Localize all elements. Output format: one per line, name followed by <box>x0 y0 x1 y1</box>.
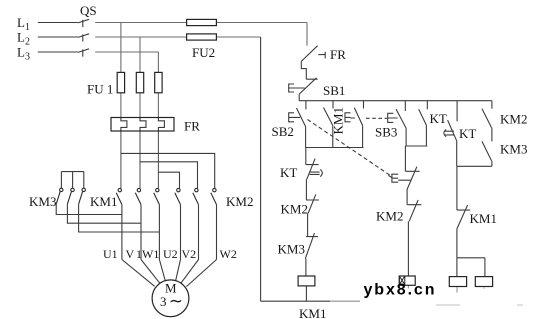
svg-text:FR: FR <box>330 47 346 62</box>
svg-text:W2: W2 <box>220 247 237 261</box>
svg-text:KM1: KM1 <box>331 107 346 134</box>
svg-text:FU 1: FU 1 <box>87 82 113 97</box>
svg-text:V2: V2 <box>182 247 197 261</box>
svg-text:KM3: KM3 <box>29 194 56 209</box>
svg-text:KM1: KM1 <box>470 211 497 226</box>
svg-text:KM2: KM2 <box>500 112 527 127</box>
svg-text:KM2: KM2 <box>226 194 253 209</box>
svg-text:FR: FR <box>184 119 200 134</box>
svg-text:SB3: SB3 <box>375 125 397 140</box>
svg-text:KM3: KM3 <box>500 142 527 157</box>
svg-text:KT: KT <box>280 165 297 180</box>
svg-text:KM2: KM2 <box>376 209 403 224</box>
svg-text:SB1: SB1 <box>323 83 345 98</box>
svg-text:KM3: KM3 <box>278 242 305 257</box>
svg-text:V: V <box>126 247 135 261</box>
svg-text:KM2: KM2 <box>281 202 308 217</box>
svg-text:QS: QS <box>80 3 97 18</box>
svg-text:KM1: KM1 <box>299 306 326 319</box>
svg-text:FU2: FU2 <box>192 45 215 60</box>
svg-text:KM1: KM1 <box>90 194 117 209</box>
svg-text:W1: W1 <box>142 247 159 261</box>
svg-text:U2: U2 <box>163 247 178 261</box>
svg-text:∼: ∼ <box>169 292 183 311</box>
svg-text:KT: KT <box>459 126 476 141</box>
svg-text:ybx8.cn: ybx8.cn <box>364 282 437 299</box>
svg-text:U1: U1 <box>103 247 118 261</box>
svg-text:3: 3 <box>160 294 167 309</box>
svg-text:KT: KT <box>430 111 447 126</box>
svg-text:SB2: SB2 <box>272 124 294 139</box>
